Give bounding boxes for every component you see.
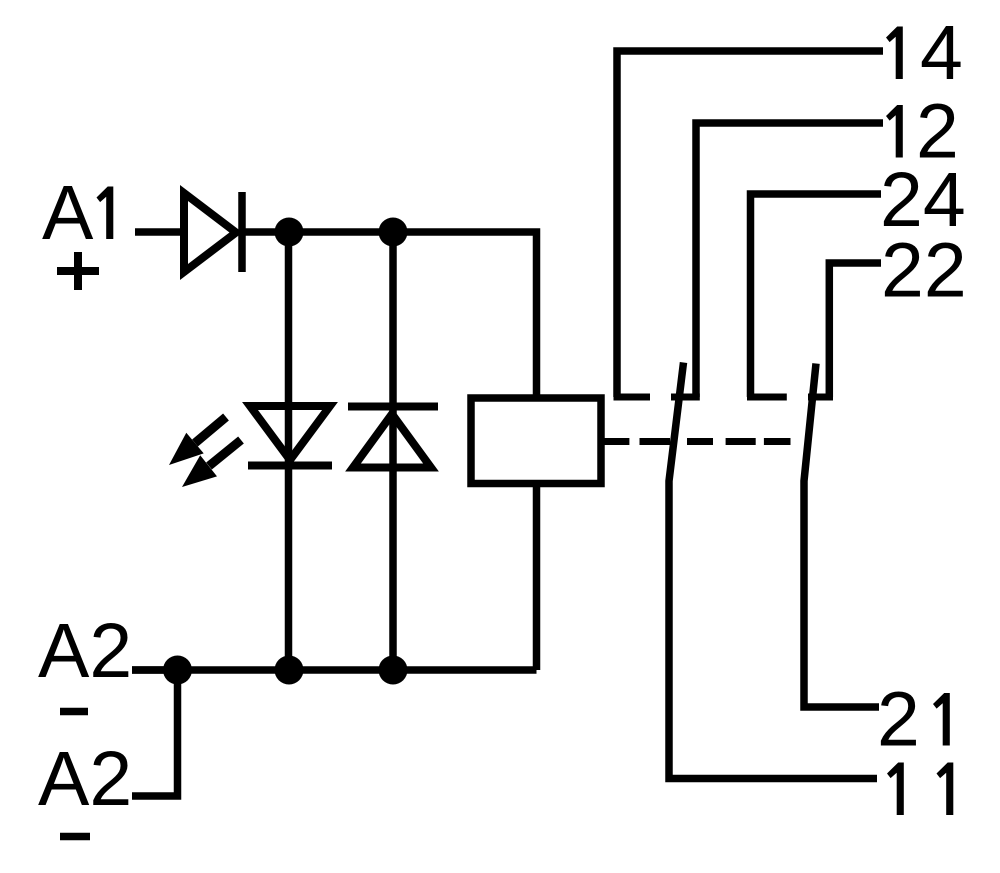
node junction bottom suppressor branch — [379, 656, 408, 685]
terminal label 12 — [886, 105, 903, 158]
wire top rail to coil — [242, 232, 537, 398]
svg-text:A: A — [42, 170, 94, 256]
contact 22 fixed foot — [808, 394, 833, 401]
svg-text:4: 4 — [920, 10, 963, 96]
LED cathode bar — [248, 462, 332, 470]
LED triangle — [250, 406, 330, 460]
wire second A2 lead up to junction — [132, 670, 178, 796]
plus polarity mark at A1 — [57, 252, 99, 290]
node junction top LED branch — [275, 218, 304, 247]
suppressor diode triangle — [353, 414, 431, 468]
dashed mechanical link from coil to contacts — [604, 438, 791, 445]
contact 14 fixed foot — [614, 394, 651, 401]
wire terminal 22 with drop — [829, 263, 881, 397]
svg-text:A2: A2 — [38, 736, 132, 822]
contact 12 fixed foot — [671, 394, 700, 401]
svg-text:22: 22 — [881, 228, 967, 314]
svg-text:2: 2 — [877, 677, 920, 763]
wire LED branch vertical — [285, 232, 293, 670]
contact lever 2 (common 21) — [804, 364, 879, 708]
wire bottom rail — [132, 666, 537, 674]
terminal label 11 — [887, 763, 904, 816]
LED arrows (light emission) — [169, 417, 241, 487]
wire terminal 12 with drop — [696, 123, 883, 397]
wire A1 lead — [135, 228, 181, 236]
contact 24 fixed foot — [747, 394, 787, 401]
svg-text:A2: A2 — [38, 608, 132, 694]
minus polarity mark at A2 — [60, 708, 88, 716]
relay coil K1 box — [471, 398, 601, 484]
node junction top suppressor branch — [379, 218, 408, 247]
wire terminal 14 with drop — [617, 51, 883, 397]
node junction A2 — [163, 656, 192, 685]
wire suppressor diode branch vertical — [389, 232, 397, 670]
minus polarity mark at second A2 — [60, 833, 90, 841]
wire terminal 24 with drop — [751, 194, 882, 397]
wire A2 lead — [132, 666, 177, 674]
node junction bottom LED branch — [275, 656, 304, 685]
terminal label 14 — [886, 27, 903, 80]
suppressor diode cathode bar — [348, 403, 438, 411]
wire coil bottom to A2 rail — [533, 483, 541, 670]
diode D1 cathode bar — [238, 192, 246, 272]
contact lever 1 (common 11) — [669, 363, 877, 779]
diode D1 triangle (polarity protection) — [184, 193, 236, 272]
